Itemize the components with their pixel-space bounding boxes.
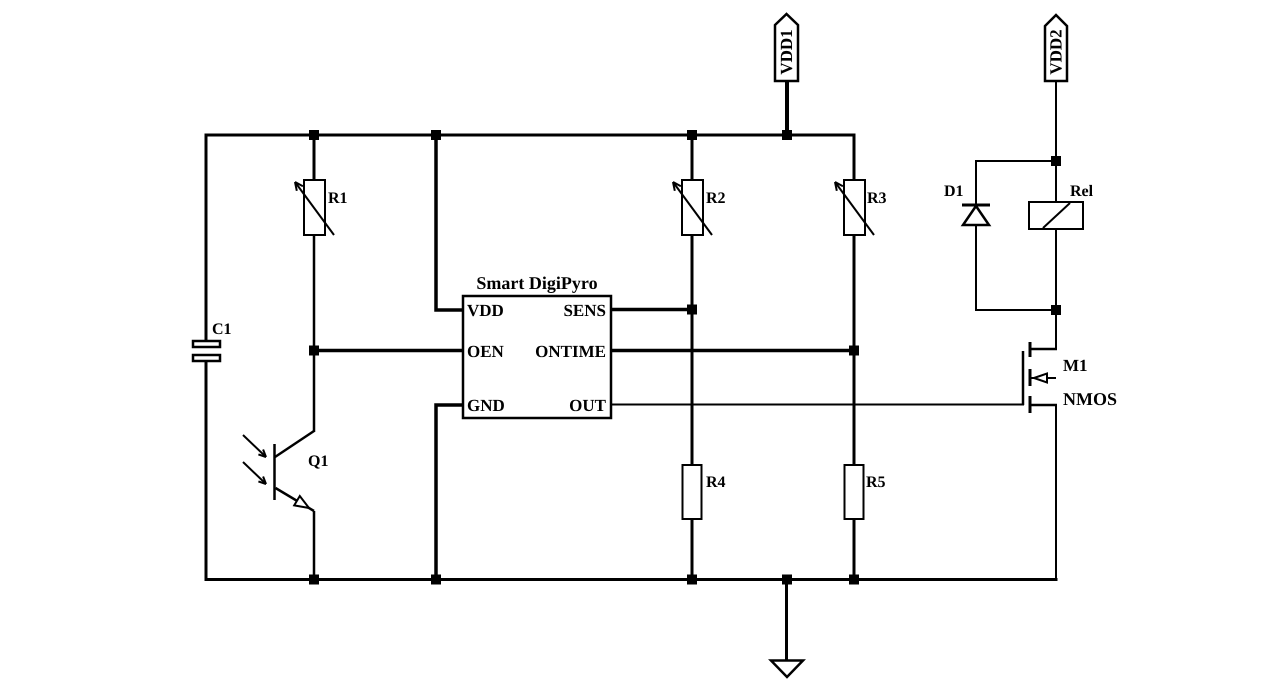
node junction OEN/R1 — [309, 346, 319, 356]
node junction VDD2/D1 — [1051, 156, 1061, 166]
ground — [771, 661, 803, 678]
svg-text:Smart DigiPyro: Smart DigiPyro — [476, 273, 597, 293]
wire SENS — [611, 308, 693, 312]
wire VDD1 stub — [785, 81, 789, 135]
wire VDD2 stub — [1055, 81, 1057, 162]
wire R4 to bottom — [691, 519, 694, 581]
svg-text:R4: R4 — [706, 474, 726, 491]
wire left vertical upper — [205, 134, 208, 342]
svg-text:OUT: OUT — [569, 396, 607, 415]
svg-text:VDD: VDD — [467, 301, 504, 320]
wire R2 to R4 — [691, 235, 694, 466]
svg-text:R3: R3 — [867, 190, 887, 207]
wire R3 branch top — [853, 134, 856, 182]
svg-text:Rel: Rel — [1070, 183, 1094, 200]
node junction SENS/R2 — [687, 305, 697, 315]
capacitor C1 — [193, 321, 232, 361]
wire R1 node to Q1 collector — [313, 350, 316, 432]
transistor M1 NMOS — [1023, 342, 1117, 413]
svg-text:ONTIME: ONTIME — [535, 342, 606, 361]
node junction R2/top — [687, 130, 697, 140]
wire R1 to OEN node — [313, 235, 316, 352]
relay Rel — [1029, 183, 1094, 229]
svg-text:R1: R1 — [328, 190, 348, 207]
wire R5 to bottom — [853, 519, 856, 581]
wire Rel top — [1055, 161, 1057, 203]
resistor R3 — [835, 180, 887, 235]
svg-text:SENS: SENS — [563, 301, 606, 320]
wire bottom bus — [205, 578, 1058, 581]
wire left vertical lower — [205, 361, 208, 581]
svg-text:VDD1: VDD1 — [777, 29, 796, 74]
svg-text:D1: D1 — [944, 183, 964, 200]
wire top bus — [205, 134, 856, 137]
power flag VDD2 — [1045, 15, 1067, 81]
svg-text:M1: M1 — [1063, 356, 1088, 375]
op-amp U1 Smart DigiPyro IC — [463, 273, 611, 418]
wire D1 branch top — [976, 161, 1056, 205]
wire OEN — [314, 349, 463, 353]
transistor Q1 — [243, 431, 328, 511]
node junction ground/bottom — [782, 575, 792, 585]
node junction VDD branch/top — [431, 130, 441, 140]
wire Rel bottom — [1055, 229, 1057, 311]
wire VDD branch — [436, 135, 463, 310]
svg-text:Q1: Q1 — [308, 453, 328, 470]
wire M1 drain — [1055, 310, 1057, 350]
svg-text:R2: R2 — [706, 190, 726, 207]
svg-text:VDD2: VDD2 — [1047, 29, 1066, 74]
node junction R5/bottom — [849, 575, 859, 585]
node junction Q1/bottom — [309, 575, 319, 585]
svg-text:OEN: OEN — [467, 342, 505, 361]
wire OUT to gate — [611, 404, 1024, 406]
node junction D1/Rel/M1 — [1051, 305, 1061, 315]
node junction R4/bottom — [687, 575, 697, 585]
power flag VDD1 — [775, 14, 798, 81]
wire GND branch — [436, 405, 463, 581]
resistor R4 — [683, 465, 726, 519]
wire D1 branch bottom — [976, 225, 1056, 310]
node junction VDD1/top — [782, 130, 792, 140]
node junction ONTIME/R3 — [849, 346, 859, 356]
resistor R2 — [673, 180, 726, 235]
wire Q1 emitter down — [313, 511, 316, 581]
svg-text:GND: GND — [467, 396, 505, 415]
svg-text:R5: R5 — [866, 474, 886, 491]
node junction GND/bottom — [431, 575, 441, 585]
wire R2 branch top — [691, 135, 694, 181]
wire ONTIME — [611, 349, 855, 353]
diode D1 — [944, 183, 990, 225]
node junction R1/top — [309, 130, 319, 140]
wire R1 branch top — [313, 135, 316, 181]
wire R3 to R5 — [853, 235, 856, 466]
resistor R5 — [845, 465, 886, 519]
svg-text:C1: C1 — [212, 321, 232, 338]
resistor R1 — [295, 180, 348, 235]
wire ground stub — [785, 579, 788, 661]
wire M1 source down — [1055, 405, 1057, 581]
svg-text:NMOS: NMOS — [1063, 389, 1117, 409]
